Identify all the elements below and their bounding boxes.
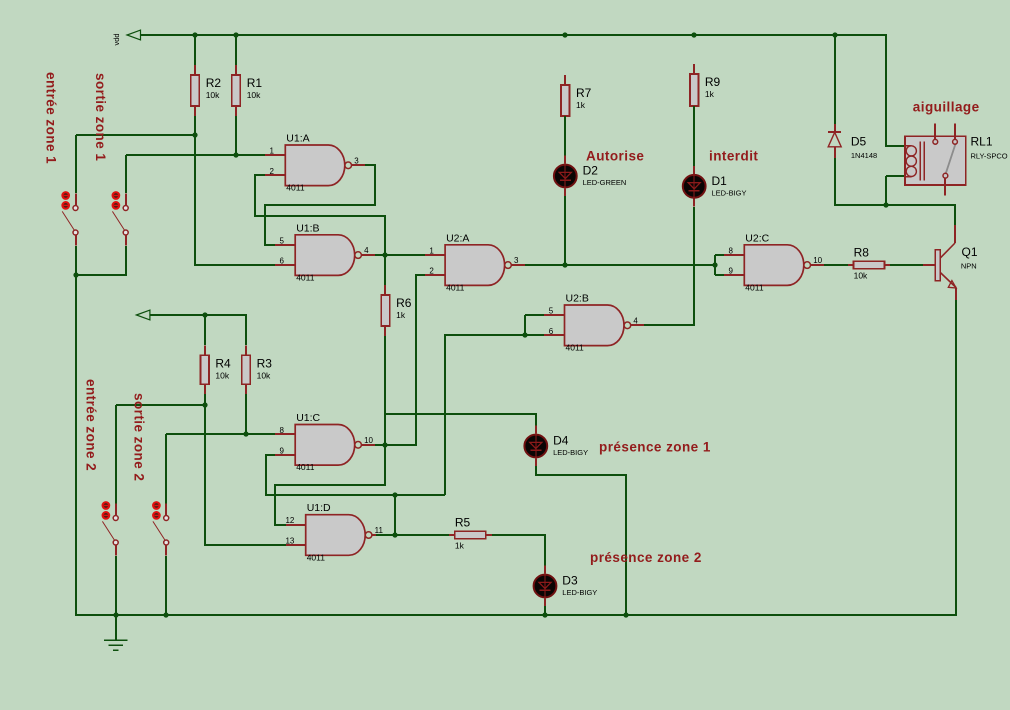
junction: pin9 net/U1:D out [392, 492, 397, 497]
svg-text:U2:B: U2:B [566, 293, 589, 305]
svg-text:D1: D1 [712, 174, 728, 188]
wire: down to SW2 [125, 155, 127, 193]
svg-text:4011: 4011 [307, 552, 326, 562]
wire: ground rail (left+bottom+emitter riser) [76, 275, 956, 615]
wire: SW1 top to R2 node [76, 134, 195, 136]
wire: R9 to D1 [693, 106, 695, 166]
svg-text:U2:A: U2:A [446, 232, 469, 244]
svg-text:4011: 4011 [286, 183, 305, 193]
resistor R6 [381, 285, 412, 336]
switch SW4 sortie zone 2 [153, 502, 169, 556]
junction: R2/SW1 [192, 132, 197, 137]
svg-text:11: 11 [375, 526, 384, 535]
wire: U1:D net to U2:B pin6 [445, 335, 544, 495]
svg-text:10k: 10k [215, 370, 229, 380]
op-gate U1:C (4011 NAND) [275, 412, 375, 472]
wire: D4 to ground rail [536, 466, 626, 615]
LED D2 [554, 156, 626, 197]
relay RL1 [905, 124, 1008, 196]
wire: down to U1:D output [394, 495, 396, 535]
wire: U2:B tie vertical [524, 315, 526, 335]
wire: D5 to collector node [835, 158, 955, 225]
svg-text:R9: R9 [705, 75, 721, 89]
wire: VDD to D5 [834, 35, 836, 124]
svg-text:10: 10 [364, 436, 373, 445]
svg-text:D5: D5 [851, 135, 867, 149]
op-gate U2:A (4011 NAND) [425, 232, 525, 292]
svg-text:2: 2 [270, 167, 275, 176]
svg-text:10k: 10k [257, 370, 271, 380]
svg-text:4011: 4011 [446, 283, 465, 293]
svg-text:entrée zone 1: entrée zone 1 [44, 72, 59, 164]
svg-text:U1:D: U1:D [307, 502, 331, 514]
wire: down to SW4 [165, 434, 167, 504]
junction: VDD/D5 [832, 32, 837, 37]
wire: U2:C input tie [714, 255, 716, 275]
ground [104, 615, 127, 650]
junction: D5/relay coil [883, 202, 888, 207]
wire: to relay coil bottom [886, 175, 905, 177]
wire: R1 down to node [235, 116, 237, 155]
svg-text:R4: R4 [215, 356, 231, 370]
svg-text:6: 6 [549, 327, 554, 336]
junction: U1:C output [382, 442, 387, 447]
power symbol (zone 2 rail) [136, 310, 150, 320]
svg-text:4011: 4011 [296, 462, 315, 472]
svg-text:4011: 4011 [566, 343, 585, 353]
wire: R8 to Q1 base [890, 264, 923, 266]
svg-text:LED-BIGY: LED-BIGY [562, 588, 597, 597]
resistor R9 [690, 64, 721, 116]
wire: to U2:C pin8 [715, 254, 724, 256]
wire: U1:D output to R5 [376, 534, 449, 536]
wire: SW1 bottom [75, 246, 77, 275]
LED D1 [683, 166, 747, 207]
op-gate U1:A (4011 NAND) [265, 133, 365, 193]
wire: coil bottom riser [885, 176, 887, 205]
wire: U1:A pin2 to U1:B output [255, 175, 385, 255]
wire: VDD top rail to relay coil [140, 35, 905, 146]
junction: U1:D output [392, 532, 397, 537]
svg-text:vdd: vdd [112, 33, 121, 45]
junction: SW4/rail [163, 612, 168, 617]
svg-text:R6: R6 [396, 296, 412, 310]
svg-text:R2: R2 [206, 76, 222, 90]
svg-text:1k: 1k [396, 310, 406, 320]
svg-text:interdit: interdit [709, 149, 758, 164]
svg-text:présence zone 1: présence zone 1 [599, 440, 711, 455]
svg-text:4011: 4011 [296, 273, 315, 283]
svg-text:présence zone 2: présence zone 2 [590, 550, 702, 565]
svg-text:aiguillage: aiguillage [913, 100, 980, 115]
svg-text:10: 10 [813, 256, 822, 265]
junction: rail2/R4 [202, 312, 207, 317]
wire: R7 to D2 [564, 116, 566, 156]
svg-text:2: 2 [429, 267, 434, 276]
junction: SW3/rail [113, 612, 118, 617]
resistor R4 [201, 345, 232, 394]
svg-text:R7: R7 [576, 86, 592, 100]
svg-text:sortie zone 2: sortie zone 2 [132, 393, 147, 481]
svg-text:1: 1 [429, 246, 434, 255]
svg-text:3: 3 [514, 256, 519, 265]
wire: R3 down to node [245, 394, 247, 434]
svg-text:Q1: Q1 [962, 245, 978, 259]
svg-text:5: 5 [549, 307, 554, 316]
wire: R2 to U1:B pin6 [195, 116, 275, 265]
junction: SW1/SW2 bottoms [73, 272, 78, 277]
junction: bus/U2:C inputs [712, 262, 717, 267]
wire: to U2:B pin5 [525, 314, 544, 316]
power symbol VDD (top rail) [112, 30, 141, 45]
svg-text:5: 5 [279, 236, 284, 245]
svg-text:1k: 1k [705, 89, 715, 99]
wire: SW2 top to U1:A pin1 [126, 154, 265, 156]
svg-text:10k: 10k [206, 90, 220, 100]
LED D4 [524, 426, 588, 467]
svg-text:U2:C: U2:C [745, 232, 769, 244]
op-gate U2:C (4011 NAND) [724, 232, 824, 292]
junction: D4/rail [623, 612, 628, 617]
svg-text:U1:A: U1:A [286, 133, 309, 145]
wire: VDD to R1 [235, 35, 237, 65]
wire: SW4 top to U1:C pin8 [166, 433, 275, 435]
wire: R4 to U1:D pin13 [205, 394, 286, 545]
junction: R3/SW4 [243, 431, 248, 436]
resistor R1 [232, 65, 263, 116]
junction: VDD/R7 [562, 32, 567, 37]
svg-text:4: 4 [633, 316, 638, 325]
svg-text:entrée zone 2: entrée zone 2 [84, 379, 99, 471]
svg-text:Autorise: Autorise [586, 149, 644, 164]
wire: D2 to bus [564, 196, 566, 265]
svg-text:D2: D2 [583, 164, 599, 178]
wire: U1:B output to U2:A pin1 [375, 254, 425, 256]
wire: U2:C out to R8 [824, 264, 848, 266]
svg-text:RLY-SPCO: RLY-SPCO [971, 152, 1008, 161]
wire: U1:C pin9 to U1:D output net [266, 455, 445, 495]
svg-text:1: 1 [270, 147, 275, 156]
wire: R5 to D3 [492, 535, 545, 566]
junction: bus/D2 [562, 262, 567, 267]
junction: VDD/R9 [691, 32, 696, 37]
resistor R8 [848, 246, 891, 281]
svg-text:1N4148: 1N4148 [851, 151, 877, 160]
wire: junction to R6 [384, 255, 386, 285]
svg-text:12: 12 [285, 516, 294, 525]
switch SW3 entree zone 2 [102, 502, 118, 556]
wire: U1:A output to U1:B pin5 [265, 165, 375, 245]
svg-text:4: 4 [364, 246, 369, 255]
wire: VDD to R2 [194, 35, 196, 65]
junction: R4/SW3 [202, 402, 207, 407]
svg-text:U1:C: U1:C [296, 412, 320, 424]
svg-text:R3: R3 [257, 356, 273, 370]
svg-text:9: 9 [729, 267, 734, 276]
wire: SW4 bottom to rail [165, 556, 167, 615]
resistor R3 [242, 345, 273, 394]
wire: SW3 top to R4 node [116, 404, 205, 406]
svg-text:13: 13 [285, 537, 294, 546]
svg-text:R8: R8 [854, 246, 870, 260]
resistor R2 [191, 65, 222, 116]
resistor R5 [449, 515, 492, 550]
svg-text:LED-GREEN: LED-GREEN [583, 178, 627, 187]
junction: R1/SW2 [233, 152, 238, 157]
wire: down to SW1 [75, 135, 77, 193]
op-gate U2:B (4011 NAND) [544, 293, 644, 353]
wire: zone2 power rail to R3 [150, 315, 246, 345]
LED D3 [534, 566, 598, 607]
wire: to U2:C pin9 [715, 274, 724, 276]
wire: SW2 bottom to node [76, 246, 126, 275]
svg-text:10k: 10k [247, 90, 261, 100]
svg-text:R5: R5 [455, 515, 471, 529]
wire: D3 to ground rail [544, 606, 546, 615]
wire: U2:A output bus [525, 264, 715, 266]
svg-text:NPN: NPN [961, 262, 977, 271]
op-gate U1:D (4011 NAND) [285, 502, 385, 562]
svg-text:6: 6 [279, 257, 284, 266]
junction: VDD/R2 [192, 32, 197, 37]
svg-text:R1: R1 [247, 76, 263, 90]
wire: rail2 to R4 [204, 315, 206, 345]
resistor R7 [561, 75, 592, 126]
svg-text:1k: 1k [576, 100, 586, 110]
svg-text:D4: D4 [553, 434, 569, 448]
junction: U2:B input tie [522, 332, 527, 337]
switch SW1 entree zone 1 [62, 192, 78, 246]
switch SW2 sortie zone 1 [112, 192, 128, 246]
svg-text:4011: 4011 [745, 283, 764, 293]
diode D5 [828, 124, 877, 160]
wire: R6 node to D4 [385, 414, 536, 426]
junction: U1:B out/R6 [382, 252, 387, 257]
wire: D1 to U2:B output [644, 207, 694, 325]
wire: U1:C output to U2:A pin2 [375, 275, 425, 445]
svg-text:9: 9 [279, 446, 284, 455]
svg-text:U1:B: U1:B [296, 222, 319, 234]
svg-text:D3: D3 [562, 574, 578, 588]
junction: VDD/R1 [233, 32, 238, 37]
svg-text:LED-BIGY: LED-BIGY [553, 448, 588, 457]
wire: SW3 bottom to rail [115, 556, 117, 615]
wire: R6 bottom / U1:C out to U1:D pin12 [275, 336, 385, 525]
svg-text:8: 8 [279, 426, 284, 435]
op-gate U1:B (4011 NAND) [275, 222, 375, 282]
svg-text:RL1: RL1 [971, 135, 993, 149]
svg-text:3: 3 [354, 156, 359, 165]
svg-text:sortie zone 1: sortie zone 1 [93, 73, 108, 161]
svg-text:8: 8 [729, 246, 734, 255]
svg-text:LED-BIGY: LED-BIGY [712, 189, 747, 198]
wire: down to SW3 [115, 405, 117, 504]
junction: D3/rail [542, 612, 547, 617]
svg-text:1k: 1k [455, 540, 465, 550]
svg-text:10k: 10k [854, 271, 868, 281]
transistor Q1 [923, 225, 978, 300]
